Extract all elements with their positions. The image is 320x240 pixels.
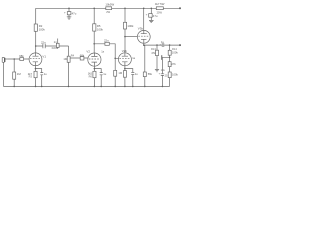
svg-text:V2: V2 xyxy=(86,50,90,54)
svg-text:R13: R13 xyxy=(151,47,156,51)
ground (under C7) xyxy=(67,17,72,19)
svg-text:1u: 1u xyxy=(161,40,164,44)
svg-text:100k: 100k xyxy=(39,28,46,32)
wire V2 cathode xyxy=(93,66,95,86)
svg-text:47k: 47k xyxy=(151,51,156,55)
svg-text:100k: 100k xyxy=(172,73,178,77)
node output terminal xyxy=(179,44,181,46)
svg-text:25: 25 xyxy=(165,73,168,77)
svg-text:1a: 1a xyxy=(101,50,104,54)
svg-text:100k: 100k xyxy=(127,24,134,28)
ground (under C8) xyxy=(149,20,154,22)
node rail junction C7 xyxy=(68,8,70,10)
wire V1 cathode xyxy=(35,66,37,87)
svg-text:27k: 27k xyxy=(171,62,176,66)
wire output line xyxy=(144,44,180,46)
svg-text:V3b: V3b xyxy=(138,26,144,30)
resistor R8 (grid leak stage3) xyxy=(114,58,123,86)
wire V4 cathode xyxy=(143,43,145,45)
svg-text:47u: 47u xyxy=(153,14,158,18)
svg-text:+: + xyxy=(146,12,148,16)
capacitor C10 (polarized, to bus) xyxy=(159,72,168,87)
svg-text:22n: 22n xyxy=(104,39,109,43)
resistor R4a (grid stopper stage2) xyxy=(70,53,88,60)
ground (under R13) xyxy=(155,70,159,72)
capacitor C6 (cathode bypass stage3) xyxy=(125,69,138,87)
node stage3 grid junction xyxy=(114,58,116,60)
resistor R4 (grid leak stage2) xyxy=(63,46,74,86)
svg-text:R4: R4 xyxy=(71,53,75,57)
node bus junction C10 xyxy=(162,86,164,88)
resistor R1 (grid leak stage1) xyxy=(13,59,22,86)
wire jack sleeve to ground bus xyxy=(2,62,4,86)
node stage1 plate junction xyxy=(35,45,37,47)
node rail junction stage3 xyxy=(124,8,126,10)
resistor R2 (stage1 plate load) xyxy=(34,24,45,32)
svg-text:68k: 68k xyxy=(80,53,85,57)
wire V3 cathode xyxy=(124,66,126,87)
capacitor C9 (series output, polarized) xyxy=(159,40,164,47)
capacitor C8 (filter) xyxy=(146,12,158,20)
node V4 cathode junction xyxy=(143,44,145,46)
svg-text:100k: 100k xyxy=(97,27,104,31)
wire drop to C8 xyxy=(150,8,152,13)
svg-text:1u: 1u xyxy=(135,72,138,76)
resistor R7 (stage3 plate load) xyxy=(124,22,135,29)
wire ground bus xyxy=(3,85,169,87)
node output junction A xyxy=(156,44,158,46)
svg-text:2W: 2W xyxy=(106,10,110,14)
wire B+ rail xyxy=(36,7,180,9)
tube V3 (triode stage 3) xyxy=(118,49,135,66)
node B+ terminal xyxy=(179,7,181,9)
resistor R11 (series rail, right) xyxy=(155,2,165,14)
resistor R15 (divider bottom) xyxy=(168,62,176,72)
node rail junction V4 xyxy=(143,8,145,10)
tube V4 (cathode follower) xyxy=(137,26,150,43)
svg-text:R6: R6 xyxy=(89,74,93,78)
svg-text:V1: V1 xyxy=(42,55,46,59)
capacitor C5 (coupling) xyxy=(104,39,109,46)
resistor R1a (grid stopper stage1) xyxy=(19,54,24,60)
svg-text:68k: 68k xyxy=(19,54,24,58)
resistor R16 (lower) xyxy=(168,72,178,86)
capacitor C10 label marks xyxy=(161,55,166,72)
wire divider tap xyxy=(162,57,169,73)
node divider junction xyxy=(169,57,171,59)
resistor R14 (divider top) xyxy=(168,45,178,62)
svg-text:1n: 1n xyxy=(54,40,58,44)
resistor R3 (cathode stage1) xyxy=(28,71,37,78)
node V4 grid junction xyxy=(124,36,126,38)
svg-text:56k: 56k xyxy=(148,72,153,76)
node V3 cathode junction xyxy=(124,68,126,70)
node V1 cathode junction xyxy=(35,68,37,70)
wire coupling stage2 to stage3 xyxy=(94,44,118,59)
svg-text:100k: 100k xyxy=(172,50,178,54)
tube V1 (triode stage 1) xyxy=(29,53,46,66)
svg-text:1a: 1a xyxy=(132,56,135,60)
resistor R9 (cathode stage3) xyxy=(123,71,126,78)
svg-text:R3: R3 xyxy=(29,75,33,79)
capacitor C3 (coupling, box) xyxy=(54,39,60,49)
node bus junction R12 xyxy=(144,86,146,88)
capacitor C2 (coupling) xyxy=(41,40,58,50)
capacitor C1 (cathode bypass stage1) xyxy=(36,69,48,87)
wire stage1 plate line xyxy=(35,8,37,53)
connector J1 input jack xyxy=(2,58,8,63)
node bus junctions xyxy=(13,86,133,88)
wire stage3 plate line xyxy=(124,8,126,53)
svg-text:+: + xyxy=(64,10,66,14)
resistor R5 (stage2 plate load) xyxy=(93,24,104,32)
svg-text:1u: 1u xyxy=(103,72,106,76)
wire drop to C7 xyxy=(68,8,70,11)
wire input to grid xyxy=(8,58,29,60)
resistor R13 (to ground) xyxy=(151,45,159,69)
wire stage2 plate line xyxy=(93,8,95,53)
resistor R10 (series rail, left) xyxy=(105,3,114,14)
svg-text:4k7 5W: 4k7 5W xyxy=(155,2,165,6)
svg-text:V2b: V2b xyxy=(122,49,128,53)
svg-text:47u: 47u xyxy=(72,11,77,15)
svg-text:22n: 22n xyxy=(41,40,46,44)
capacitor C7 (filter) xyxy=(64,10,77,16)
wire coupling stage1 to stage2 xyxy=(36,45,69,47)
svg-text:1u: 1u xyxy=(44,72,47,76)
wire V4 grid xyxy=(125,36,138,38)
node rail junction stage2 xyxy=(93,8,95,10)
node stage2 plate junction xyxy=(93,43,95,45)
node rail junction C8 xyxy=(151,8,153,10)
node output junction B xyxy=(169,44,171,46)
tube V2 (triode stage 2) xyxy=(86,50,104,67)
svg-text:1M: 1M xyxy=(17,72,22,76)
node input junction xyxy=(13,58,15,60)
svg-text:10u: 10u xyxy=(161,68,166,72)
svg-text:10k5W: 10k5W xyxy=(105,3,114,7)
svg-text:1M: 1M xyxy=(118,71,122,75)
resistor R6 (cathode stage2) xyxy=(88,71,96,78)
wire V4 plate to rail xyxy=(143,8,145,30)
capacitor C4 (cathode bypass stage2) xyxy=(94,69,106,87)
svg-text:630V: 630V xyxy=(52,46,58,50)
node V2 cathode junction xyxy=(94,68,96,70)
resistor R12 (cathode follower load) xyxy=(143,45,152,86)
svg-text:+: + xyxy=(159,72,161,76)
